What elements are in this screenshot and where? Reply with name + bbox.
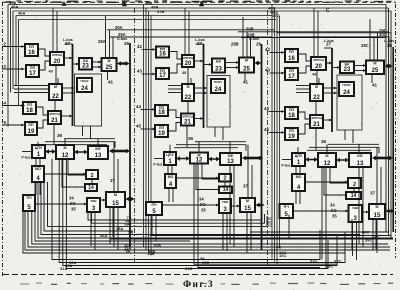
L-bus 27 section B: [203, 44, 205, 128]
wire top feed 5: [313, 8, 315, 57]
svg-text:ЦПУ: ЦПУ: [166, 153, 174, 157]
svg-text:2: 2: [353, 182, 356, 188]
input arrow 5: [2, 124, 25, 127]
wire PP18-ZPROC21 A: [36, 107, 48, 115]
wire 36 line2 C: [309, 147, 379, 153]
wire BK23-M25 b B: [225, 66, 239, 69]
block M 12 B: [190, 153, 208, 164]
svg-text:P-bus: P-bus: [282, 164, 291, 168]
wire C kf drop1: [358, 167, 360, 244]
wire MO4-PCH a B: [168, 188, 170, 202]
wire b2-b14 A: [91, 179, 93, 184]
svg-text:БК: БК: [216, 60, 222, 64]
border right dash-dot: [395, 4, 397, 258]
wire 29-M25 drop B: [250, 38, 252, 58]
svg-text:30A: 30A: [115, 25, 123, 30]
input arrow 44C: [269, 110, 285, 113]
wire ZPROC20-Lbus C: [326, 62, 332, 65]
svg-text:ПП: ПП: [289, 108, 295, 112]
wire 36 line2 A: [45, 142, 115, 148]
wire 28A drop: [105, 16, 107, 58]
svg-text:47C: 47C: [272, 13, 279, 18]
wire 30A: [107, 29, 275, 31]
svg-text:ЦПУ: ЦПУ: [35, 146, 43, 150]
wire UVV-M15 C: [362, 211, 369, 214]
wire M22-POZU b C: [323, 92, 337, 95]
svg-text:18: 18: [26, 108, 33, 114]
wire PP17-ZPROC20 C: [298, 66, 311, 73]
block POZU 24 B: [211, 79, 225, 93]
wire M22 left feed 2 B: [168, 88, 182, 90]
svg-text:Б: Б: [200, 1, 204, 7]
svg-text:ЗПРОЦ: ЗПРОЦ: [182, 115, 193, 119]
svg-text:9A: 9A: [126, 249, 131, 254]
wire B pch drop2: [155, 215, 157, 241]
wire UVV drop B: [222, 213, 224, 247]
wire P-bus stub C: [282, 159, 292, 161]
wire CPU-MO4 a A: [35, 158, 37, 166]
wire KF-M15 b A: [117, 159, 119, 192]
wire 30B: [238, 31, 389, 33]
svg-text:37: 37: [370, 191, 376, 196]
svg-text:14: 14: [88, 185, 94, 191]
block ZPROC 20 A: [50, 52, 64, 65]
block CPU 1 B: [164, 152, 176, 165]
input arrow 42C: [270, 51, 285, 54]
svg-text:34: 34: [199, 197, 204, 202]
block M 15 A: [106, 192, 125, 207]
svg-text:17: 17: [159, 73, 166, 79]
wire 30C: [280, 37, 389, 47]
bus arrow KF13 A: [109, 149, 130, 154]
wire M15 drop A: [112, 207, 114, 237]
wire M12-KF A: [74, 150, 88, 155]
svg-text:26: 26: [387, 43, 393, 48]
wire 36 line2 B: [176, 145, 246, 151]
block BK 23 C: [340, 62, 354, 74]
svg-text:ЗПРОЦ: ЗПРОЦ: [52, 53, 63, 57]
wire PP19-ZPROC21 C: [298, 124, 310, 134]
wire 29-M25 drop A: [112, 37, 114, 58]
svg-text:36: 36: [57, 133, 63, 138]
svg-text:16: 16: [159, 51, 166, 57]
wire BK23-M25 a C: [354, 64, 366, 67]
wire M15 drop B: [246, 212, 248, 242]
block PP 19 A: [25, 122, 37, 135]
svg-text:М: М: [187, 85, 190, 89]
svg-text:44: 44: [136, 104, 141, 109]
bus arrow M25-Ubus B: [255, 61, 262, 66]
block MO 4 C: [292, 174, 305, 191]
wire M12 drop2 B: [202, 164, 219, 180]
svg-text:14: 14: [351, 193, 357, 199]
wire PP16-ZPROC20 A: [38, 49, 50, 56]
svg-text:39C: 39C: [365, 238, 372, 243]
block box 2 C: [348, 178, 361, 188]
wire drop KF A: [97, 139, 99, 146]
svg-text:13: 13: [227, 159, 234, 165]
wire 49 B: [190, 78, 192, 84]
wire CPU-MO4 b A: [39, 158, 41, 166]
block M 12 A: [56, 145, 74, 159]
wire right bundle vertical 3: [390, 11, 392, 239]
svg-text:7C: 7C: [267, 223, 272, 228]
wire 36A line: [38, 182, 393, 238]
block KF 13 C: [349, 153, 371, 167]
wire Lbus-BK23 C: [332, 66, 340, 69]
svg-text:М: М: [376, 205, 379, 209]
wire C drop2: [325, 167, 327, 269]
svg-text:36: 36: [321, 139, 327, 144]
svg-text:М: М: [54, 85, 57, 89]
svg-text:ЗПРОЦ: ЗПРОЦ: [311, 116, 322, 120]
svg-text:22: 22: [313, 95, 320, 101]
wire CPU-MO4 b C: [299, 166, 301, 174]
svg-text:38C: 38C: [362, 230, 369, 235]
wire 41 A: [107, 71, 109, 80]
block M 15 C: [369, 204, 385, 219]
wire drop M12 B: [198, 142, 200, 153]
svg-text:ПП: ПП: [28, 123, 34, 127]
svg-text:41: 41: [372, 83, 378, 88]
wire top feed 6: [317, 11, 319, 57]
svg-text:14: 14: [223, 187, 229, 193]
block PCH 5 C: [280, 204, 294, 218]
wire 31C line: [52, 159, 320, 260]
wire 32A line: [59, 159, 345, 263]
wire MO4-PCH b B: [172, 188, 174, 202]
svg-text:35: 35: [201, 208, 206, 213]
svg-text:2: 2: [223, 175, 226, 181]
block BK 23 A: [79, 58, 92, 70]
input arrow 45C: [269, 131, 285, 134]
wire M12 drop1 A: [62, 159, 85, 187]
wire ZPROC21 drop B: [186, 126, 188, 148]
wire left vertical 3: [12, 11, 14, 89]
wire B kf drop2: [233, 165, 235, 247]
input arrow 45B: [141, 128, 156, 131]
svg-text:ПОЗУ: ПОЗУ: [342, 83, 350, 87]
wire MO4-PCH a A: [35, 182, 37, 195]
svg-text:39: 39: [200, 256, 205, 261]
svg-text:М: М: [374, 62, 377, 66]
svg-text:31B: 31B: [185, 266, 192, 271]
svg-text:ПЧ: ПЧ: [284, 205, 290, 209]
block M 22 C: [310, 84, 323, 101]
L-bus 27 section C: [331, 48, 333, 132]
wire M12 drop2 C: [330, 167, 348, 183]
svg-text:29A: 29A: [118, 32, 126, 37]
wire M15A drop1: [109, 207, 111, 244]
wire B drop2: [198, 164, 320, 268]
svg-text:КФ: КФ: [357, 154, 362, 158]
svg-text:15: 15: [112, 201, 119, 207]
input arrow 44B: [141, 108, 156, 111]
wire UVV drop2 B: [226, 213, 228, 251]
wire long 250: [25, 211, 390, 250]
wire 29A: [110, 36, 272, 38]
svg-text:35: 35: [332, 214, 337, 219]
svg-text:13: 13: [357, 161, 364, 167]
svg-text:20: 20: [315, 64, 322, 70]
wire 28B drop: [242, 17, 244, 58]
svg-text:10B: 10B: [147, 251, 154, 256]
wire 30-M25 drop A: [109, 30, 111, 58]
svg-text:М: М: [246, 199, 249, 203]
block box 2 A: [86, 170, 98, 179]
wire 49 A: [57, 78, 59, 84]
svg-text:12: 12: [62, 153, 69, 159]
svg-text:КФ: КФ: [95, 147, 100, 151]
wire P-bus stub B: [154, 158, 164, 160]
wire b2-b14 B: [224, 182, 226, 187]
wire PP18-ZPROC21 B: [168, 110, 181, 118]
wire 45A line: [44, 182, 133, 231]
wire PP16-ZPROC20 B: [169, 52, 182, 60]
svg-text:22: 22: [52, 94, 59, 100]
svg-text:ПП: ПП: [289, 50, 295, 54]
frame around POZU 24 section C: [337, 75, 362, 130]
svg-text:М: М: [245, 59, 248, 63]
bus arrow M25-Ubus C: [385, 64, 393, 69]
wire top bus line 1: [8, 4, 386, 6]
border left dash-dot: [2, 2, 4, 276]
wire UVV drop2 A: [94, 212, 96, 250]
svg-text:5A: 5A: [128, 230, 133, 235]
svg-text:37: 37: [110, 178, 116, 183]
svg-text:23: 23: [344, 67, 351, 73]
wire 30-M25 drop B: [246, 32, 248, 58]
svg-text:34: 34: [69, 196, 74, 201]
svg-text:30B: 30B: [246, 27, 254, 32]
U-bus 26 section A: [129, 43, 131, 247]
wire M22-POZU a A: [62, 87, 75, 90]
wire drop KF C: [358, 144, 360, 153]
svg-text:C: C: [326, 8, 330, 14]
block box 2 B: [219, 174, 231, 182]
svg-text:16: 16: [288, 56, 295, 62]
svg-text:21: 21: [184, 119, 191, 125]
wire CPU-MO4 a C: [295, 166, 297, 174]
wire M12 drop2 A: [68, 159, 86, 175]
wire M22-ZPROC21 C: [315, 101, 317, 115]
svg-text:45A: 45A: [116, 226, 123, 231]
wire drop CPU A: [37, 142, 39, 145]
svg-text:19: 19: [288, 134, 295, 140]
bus arrow M25-Ubus A: [117, 61, 130, 66]
block PP 18 B: [155, 105, 168, 116]
block box 14 B: [219, 187, 232, 194]
wire left vertical 2: [10, 8, 12, 93]
svg-text:20: 20: [185, 61, 192, 67]
svg-text:49: 49: [49, 70, 53, 74]
wire right bundle vertical 2: [388, 8, 390, 236]
wire MO4-box2 C: [305, 181, 348, 184]
wire 36 line1 A: [64, 138, 115, 140]
svg-text:УВВ: УВВ: [352, 206, 359, 210]
wire line 241: [35, 182, 190, 241]
svg-text:ПП: ПП: [29, 45, 35, 49]
svg-text:21: 21: [313, 122, 320, 128]
svg-text:16: 16: [28, 50, 35, 56]
wire long 244: [32, 211, 388, 244]
wire M22 left feed 3 B: [168, 92, 182, 94]
wire left vertical 1: [7, 5, 9, 127]
border top dashed: [2, 1, 396, 3]
wire 5A line: [41, 182, 360, 235]
separator B/C dash-dot: [267, 10, 269, 266]
arrowhead top line a1: [61, 1, 66, 6]
wire PP16-ZPROC20 C: [298, 54, 311, 61]
svg-text:46A: 46A: [18, 11, 25, 16]
svg-text:М: М: [108, 59, 111, 63]
svg-text:МО: МО: [168, 175, 174, 179]
U-bus 26 section B: [261, 44, 263, 250]
wire BK23-M25 b A: [92, 66, 102, 69]
svg-text:М: М: [315, 85, 318, 89]
block M 15 B: [240, 198, 255, 212]
wire ZPROC21-Lbus A: [61, 115, 73, 118]
wire ZPROC21 drop A: [53, 124, 55, 145]
block MO 4 A: [32, 166, 44, 182]
wire 7A line: [88, 212, 262, 220]
wire C drop1: [321, 167, 323, 260]
wire Lbus-top A: [65, 43, 73, 45]
wire ZPROC21-Lbus B: [194, 117, 204, 120]
block ZPROC 20 B: [182, 55, 194, 67]
arrowhead top line a2: [122, 2, 127, 7]
wire gap A-B vertical 4: [150, 16, 152, 256]
wire M22-POZU a C: [323, 87, 337, 90]
artifact bottom texture: [20, 283, 393, 285]
wire C kf drop2: [362, 167, 364, 247]
wire 29B: [241, 37, 386, 39]
svg-text:25: 25: [243, 66, 250, 72]
wire 8A line: [92, 212, 265, 223]
bus arrow M15 right B: [256, 203, 265, 208]
svg-text:26: 26: [256, 42, 262, 47]
wire left vertical 4: [15, 16, 17, 86]
svg-text:23: 23: [82, 63, 89, 69]
svg-text:МО: МО: [296, 175, 302, 179]
svg-text:43: 43: [265, 68, 270, 73]
input arrow 43C: [270, 72, 285, 75]
block M 25 B: [239, 58, 254, 73]
wire 28C drop: [369, 19, 371, 61]
wire gap A-B vertical 3: [148, 11, 150, 253]
wire right bundle vertical 4: [392, 47, 394, 232]
svg-text:35: 35: [71, 207, 76, 212]
wire drop M12 C: [326, 144, 328, 153]
svg-text:28A: 28A: [98, 39, 106, 44]
wire M22-ZPROC21 B: [187, 101, 189, 114]
svg-text:48A: 48A: [11, 4, 18, 9]
wire CPU-MO4 a B: [167, 165, 169, 174]
svg-text:6A: 6A: [125, 221, 130, 226]
svg-text:28B: 28B: [231, 42, 239, 47]
svg-text:32C: 32C: [334, 259, 341, 264]
svg-text:ЗПРОЦ: ЗПРОЦ: [313, 58, 324, 62]
wire ZPROC20-M22 B: [187, 67, 189, 84]
svg-text:25: 25: [372, 68, 379, 74]
wire KF-M15 b C: [380, 167, 382, 204]
wire drop M12 A: [64, 139, 66, 145]
bus arrow KF13 B: [242, 156, 263, 161]
svg-text:М: М: [114, 193, 117, 197]
wire top bus line 3: [13, 10, 391, 12]
svg-text:ПП: ПП: [289, 129, 295, 133]
wire M22-POZU b B: [194, 92, 207, 95]
svg-text:МО: МО: [35, 167, 41, 171]
block PP 16 C: [285, 49, 298, 62]
svg-text:I/O: I/O: [70, 201, 76, 206]
wire frame drop1 B: [214, 127, 216, 137]
svg-text:26: 26: [124, 41, 130, 46]
svg-text:P-bus: P-bus: [22, 156, 31, 160]
block PP 19 C: [285, 128, 298, 140]
wire C pch drop: [288, 215, 290, 240]
wire KF-M15 b B: [251, 165, 253, 198]
wire frame drop2 C: [352, 130, 354, 143]
svg-text:49: 49: [182, 71, 186, 75]
wire PP17-ZPROC20 B: [169, 64, 182, 73]
L-bus 27 section A: [72, 44, 74, 126]
svg-text:18: 18: [288, 113, 295, 119]
block UVV 3 C: [349, 205, 363, 222]
frame around POZU 24 section A: [75, 74, 102, 126]
svg-text:I/O: I/O: [331, 208, 337, 213]
svg-text:31C: 31C: [310, 258, 317, 263]
wire band-M15 a B: [247, 145, 249, 198]
block PP 16 B: [156, 47, 169, 58]
arrowhead top line b1: [199, 2, 204, 7]
svg-text:ПП: ПП: [27, 103, 33, 107]
svg-text:ПП: ПП: [289, 69, 295, 73]
svg-text:19: 19: [28, 129, 35, 135]
svg-text:20: 20: [54, 59, 61, 65]
wire UVV drop A: [90, 212, 92, 246]
svg-text:I/O: I/O: [200, 202, 206, 207]
wire gap B-C vertical 3: [276, 11, 278, 265]
wire band-M15 a A: [113, 142, 115, 192]
input arrow 43B: [142, 73, 156, 76]
wire M22 left feed 3 C: [296, 92, 310, 94]
svg-text:47B: 47B: [157, 9, 164, 14]
wire CPU-MO4 b B: [171, 165, 173, 174]
wire PP19-ZPROC21 A: [37, 120, 48, 128]
wire gap B-C vertical 1: [271, 5, 273, 259]
block M 22 B: [182, 84, 194, 101]
block ZPROC 21 B: [181, 114, 194, 126]
svg-text:24: 24: [343, 90, 350, 96]
svg-text:27: 27: [65, 41, 71, 46]
block M 25 A: [102, 58, 117, 71]
wire MO4-PCH a C: [295, 191, 297, 204]
wire PCH-UVV B: [162, 204, 219, 207]
block PP 17 B: [156, 68, 169, 79]
svg-text:18: 18: [158, 110, 165, 116]
block PP 17 C: [285, 68, 298, 80]
input arrow 4: [2, 104, 25, 107]
wire PCH-UVV A: [35, 203, 87, 206]
svg-text:25: 25: [106, 65, 113, 71]
block CPU 1 A: [32, 145, 45, 158]
svg-text:УВВ: УВВ: [90, 199, 97, 203]
svg-text:М: М: [64, 146, 67, 150]
svg-text:45: 45: [264, 127, 269, 132]
wire PP17-ZPROC20 A: [39, 61, 50, 70]
wire CPU-M12 C: [305, 157, 318, 162]
